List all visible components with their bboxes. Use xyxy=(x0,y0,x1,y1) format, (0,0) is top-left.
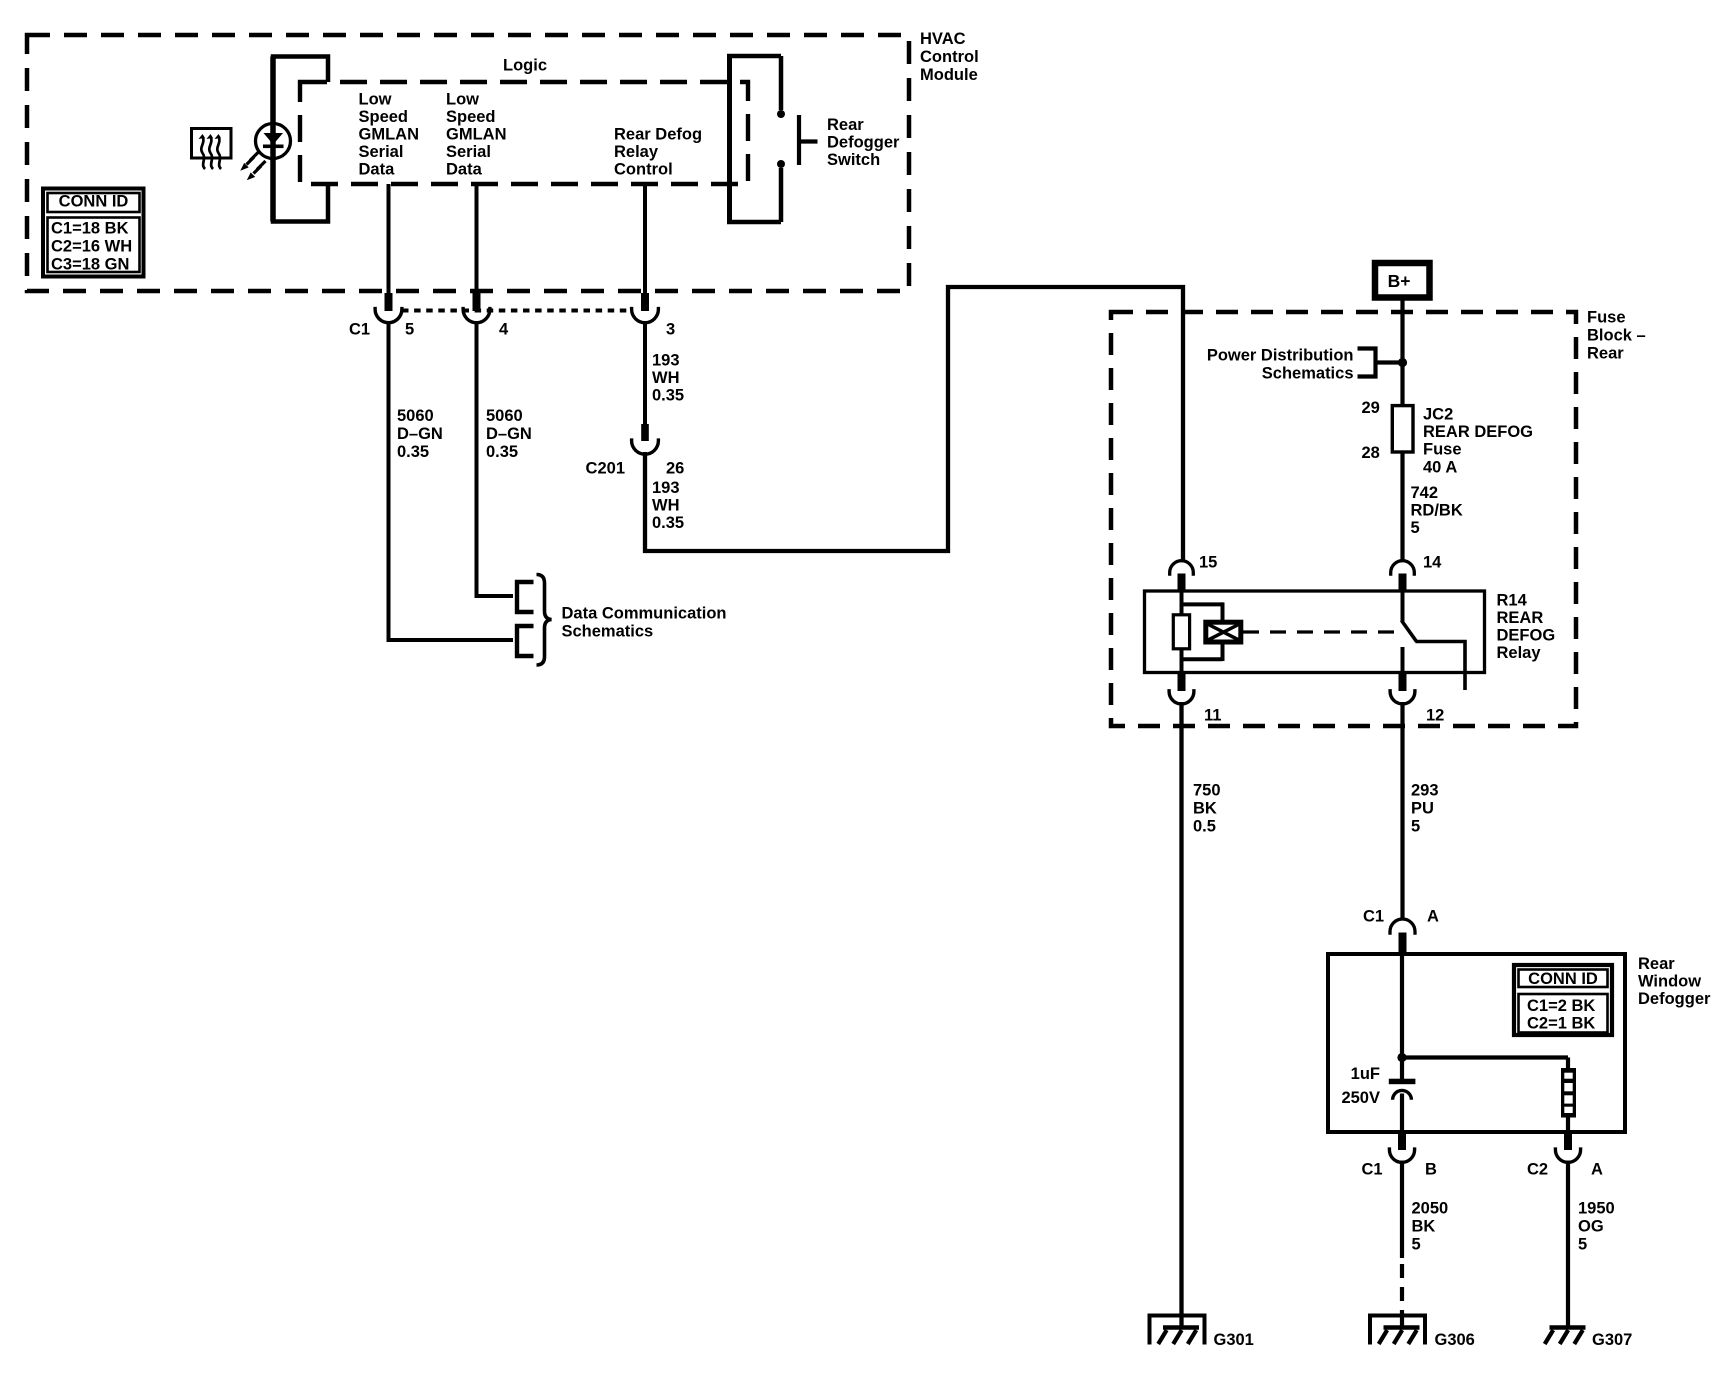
Data Communication Schematics label xyxy=(562,605,727,641)
svg-text:5060: 5060 xyxy=(397,407,434,425)
svg-text:REAR DEFOG: REAR DEFOG xyxy=(1423,423,1533,441)
pin 11 terminal xyxy=(1169,674,1194,704)
svg-text:5: 5 xyxy=(1412,1236,1421,1254)
wire 193 WH to fuse block pin 15 xyxy=(645,287,1183,560)
svg-text:750: 750 xyxy=(1193,782,1221,800)
svg-text:CONN ID: CONN ID xyxy=(59,193,129,211)
capacitor label 1uF 250V xyxy=(1341,1065,1380,1107)
svg-text:14: 14 xyxy=(1423,554,1442,572)
svg-text:RD/BK: RD/BK xyxy=(1411,502,1463,520)
fuse JC2 label xyxy=(1423,406,1533,477)
svg-text:WH: WH xyxy=(652,369,680,387)
svg-text:CONN ID: CONN ID xyxy=(1528,970,1598,988)
CONN ID table (HVAC module) xyxy=(43,189,144,277)
wire junction to grid element xyxy=(1402,1058,1568,1070)
ground G307 xyxy=(1545,1328,1586,1345)
svg-text:Schematics: Schematics xyxy=(562,623,654,641)
junction dot defogger node xyxy=(1397,1053,1406,1062)
svg-text:5: 5 xyxy=(1411,519,1420,537)
Rear Window Defogger box xyxy=(1328,954,1625,1132)
wire B+ to fuse xyxy=(1400,301,1404,407)
svg-text:15: 15 xyxy=(1199,554,1217,572)
Rear Window Defogger label xyxy=(1638,955,1711,1008)
svg-text:5: 5 xyxy=(405,321,414,339)
svg-text:193: 193 xyxy=(652,479,680,497)
relay pin 12 stub xyxy=(1401,647,1405,673)
relay coil resistor xyxy=(1173,615,1189,649)
svg-text:BK: BK xyxy=(1193,800,1217,818)
Low Speed GMLAN Serial Data (pin 4) xyxy=(446,91,507,179)
Fuse Block - Rear box xyxy=(1111,312,1576,726)
svg-text:BK: BK xyxy=(1412,1218,1436,1236)
wire 193 WH pin3 to C201 xyxy=(643,322,647,424)
svg-text:4: 4 xyxy=(499,321,509,339)
svg-text:D–GN: D–GN xyxy=(486,425,532,443)
svg-text:Relay: Relay xyxy=(1497,644,1542,662)
svg-text:Power Distribution: Power Distribution xyxy=(1207,347,1354,365)
svg-text:C3=18 GN: C3=18 GN xyxy=(51,256,129,274)
svg-text:5060: 5060 xyxy=(486,407,523,425)
wire 5060 D-GN from pin 4 xyxy=(477,322,514,596)
svg-text:0.35: 0.35 xyxy=(652,514,684,532)
svg-text:Defogger: Defogger xyxy=(1638,990,1711,1008)
capacitor 1uF 250V xyxy=(1389,1079,1416,1100)
Rear Defogger Switch symbol xyxy=(727,56,818,222)
wire capacitor to C1 pin B xyxy=(1400,1094,1404,1133)
svg-text:Low: Low xyxy=(446,91,479,109)
relay R14 label xyxy=(1497,592,1556,663)
Rear Defogger Switch label xyxy=(827,116,900,169)
wire 750 BK to G301 xyxy=(1179,702,1183,1328)
connector C1 pin B terminal xyxy=(1389,1133,1414,1162)
HVAC Control Module label xyxy=(920,30,979,84)
svg-text:Defogger: Defogger xyxy=(827,134,900,152)
svg-text:0.35: 0.35 xyxy=(397,443,429,461)
relay switch contact from pin 14 xyxy=(1401,591,1405,622)
svg-text:R14: R14 xyxy=(1497,592,1528,610)
svg-text:JC2: JC2 xyxy=(1423,406,1453,424)
svg-text:5: 5 xyxy=(1411,818,1420,836)
svg-text:250V: 250V xyxy=(1341,1089,1380,1107)
svg-text:DEFOG: DEFOG xyxy=(1497,627,1556,645)
svg-text:1uF: 1uF xyxy=(1351,1065,1380,1083)
svg-text:Serial: Serial xyxy=(359,143,404,161)
Fuse Block - Rear label xyxy=(1587,309,1646,363)
svg-text:B: B xyxy=(1425,1161,1437,1179)
svg-text:A: A xyxy=(1591,1161,1603,1179)
data link terminal lower xyxy=(517,626,534,656)
svg-text:G307: G307 xyxy=(1592,1331,1632,1349)
Power Distribution Schematics label xyxy=(1207,347,1354,383)
svg-text:GMLAN: GMLAN xyxy=(359,126,420,144)
svg-text:PU: PU xyxy=(1411,800,1434,818)
svg-text:Logic: Logic xyxy=(503,57,547,75)
svg-text:26: 26 xyxy=(666,460,684,478)
label 5060 D-GN 0.35 (pin4) xyxy=(486,407,532,461)
connector C1 dotted gang line xyxy=(402,309,632,313)
data link terminal upper xyxy=(517,582,534,612)
svg-text:Rear: Rear xyxy=(1587,345,1624,363)
label 2050 BK 5 xyxy=(1412,1200,1449,1254)
pin 4 terminal xyxy=(463,293,490,323)
svg-text:11: 11 xyxy=(1204,707,1221,725)
relay switch fixed contact arm xyxy=(1416,642,1466,691)
relay coil (crossed box) xyxy=(1206,622,1241,642)
svg-text:Serial: Serial xyxy=(446,143,491,161)
svg-text:C1=18 BK: C1=18 BK xyxy=(51,220,129,238)
svg-text:Data: Data xyxy=(359,161,396,179)
Rear Defog Relay Control (pin 3) xyxy=(614,126,702,179)
svg-text:3: 3 xyxy=(666,321,675,339)
svg-text:Low: Low xyxy=(359,91,392,109)
svg-text:Schematics: Schematics xyxy=(1262,365,1354,383)
svg-text:REAR: REAR xyxy=(1497,609,1544,627)
Low Speed GMLAN Serial Data (pin 5) xyxy=(359,91,420,179)
label 193 WH 0.35 (upper) xyxy=(652,352,684,405)
svg-text:G306: G306 xyxy=(1435,1331,1475,1349)
svg-text:B+: B+ xyxy=(1388,271,1411,291)
relay coil branch wires xyxy=(1180,591,1223,673)
svg-text:5: 5 xyxy=(1578,1236,1587,1254)
wire pin4 inside module xyxy=(475,184,479,293)
svg-text:Data Communication: Data Communication xyxy=(562,605,727,623)
ground G306 xyxy=(1368,1316,1427,1345)
wire 742 RD/BK fuse to relay xyxy=(1400,452,1404,561)
wire inside defogger from pin A xyxy=(1400,954,1404,1079)
label 193 WH 0.35 (lower) xyxy=(652,479,684,532)
label 5060 D-GN 0.35 (pin5) xyxy=(397,407,443,461)
svg-text:193: 193 xyxy=(652,352,680,370)
label 293 PU 5 xyxy=(1411,782,1439,836)
svg-text:12: 12 xyxy=(1426,707,1444,725)
svg-text:Rear: Rear xyxy=(1638,955,1675,973)
svg-text:Rear Defog: Rear Defog xyxy=(614,126,702,144)
svg-text:OG: OG xyxy=(1578,1218,1604,1236)
label 750 BK 0.5 xyxy=(1193,782,1221,836)
label 1950 OG 5 xyxy=(1578,1200,1615,1254)
LED light arrows xyxy=(240,152,265,180)
svg-text:2050: 2050 xyxy=(1412,1200,1449,1218)
svg-text:GMLAN: GMLAN xyxy=(446,126,507,144)
svg-text:A: A xyxy=(1427,908,1439,926)
pin 15 terminal xyxy=(1170,561,1194,591)
brace xyxy=(537,575,552,666)
svg-text:Fuse: Fuse xyxy=(1423,441,1462,459)
connector C201 xyxy=(632,424,659,454)
Power Distribution link bracket xyxy=(1358,349,1400,377)
svg-text:Window: Window xyxy=(1638,973,1701,991)
svg-text:1950: 1950 xyxy=(1578,1200,1615,1218)
heater indicator icon xyxy=(192,129,232,170)
svg-text:Control: Control xyxy=(920,48,979,66)
svg-text:Speed: Speed xyxy=(446,108,496,126)
svg-text:Data: Data xyxy=(446,161,483,179)
svg-text:Control: Control xyxy=(614,161,673,179)
svg-text:293: 293 xyxy=(1411,782,1439,800)
ground G301 xyxy=(1148,1316,1207,1345)
svg-text:C1: C1 xyxy=(349,321,370,339)
connector C1 pin A terminal xyxy=(1390,919,1415,954)
svg-text:40 A: 40 A xyxy=(1423,458,1457,476)
fuse JC2 REAR DEFOG 40 A xyxy=(1392,406,1413,452)
CONN ID table (defogger) xyxy=(1514,965,1612,1035)
relay switch blade xyxy=(1402,621,1417,642)
svg-text:0.35: 0.35 xyxy=(486,443,518,461)
svg-text:HVAC: HVAC xyxy=(920,30,966,48)
svg-text:29: 29 xyxy=(1362,399,1380,417)
wire 5060 D-GN from pin 5 xyxy=(389,322,514,640)
label 742 RD/BK 5 xyxy=(1411,484,1463,537)
wire: LED indicator loop xyxy=(273,57,328,222)
svg-text:C1: C1 xyxy=(1362,1161,1383,1179)
wire 293 PU relay to defogger xyxy=(1400,702,1404,919)
svg-text:0.5: 0.5 xyxy=(1193,818,1216,836)
wire element to C2 pin A xyxy=(1566,1118,1570,1133)
Logic box xyxy=(300,82,748,184)
svg-text:Switch: Switch xyxy=(827,151,880,169)
svg-text:0.35: 0.35 xyxy=(652,387,684,405)
svg-text:C2: C2 xyxy=(1527,1161,1548,1179)
pin 3 terminal xyxy=(632,293,659,323)
LED indicator (rear defog telltale) xyxy=(256,124,291,159)
svg-text:Block –: Block – xyxy=(1587,327,1646,345)
svg-text:C1: C1 xyxy=(1363,908,1384,926)
svg-text:742: 742 xyxy=(1411,484,1439,502)
defogger grid element xyxy=(1561,1068,1576,1118)
svg-text:G301: G301 xyxy=(1214,1331,1254,1349)
pin 5 terminal xyxy=(375,293,402,323)
HVAC Control Module box xyxy=(27,35,909,291)
wire pin3 inside module xyxy=(643,184,647,293)
svg-text:Relay: Relay xyxy=(614,143,659,161)
relay linkage dashed line xyxy=(1243,630,1396,633)
svg-text:C2=1 BK: C2=1 BK xyxy=(1527,1015,1595,1033)
svg-text:C1=2 BK: C1=2 BK xyxy=(1527,997,1595,1015)
svg-text:WH: WH xyxy=(652,497,680,515)
svg-text:C2=16 WH: C2=16 WH xyxy=(51,238,132,256)
wire 1950 OG to G307 xyxy=(1566,1161,1570,1328)
svg-text:Rear: Rear xyxy=(827,116,864,134)
junction dot B+ node xyxy=(1398,358,1407,367)
pin 12 terminal xyxy=(1390,674,1415,704)
connector C2 pin A terminal xyxy=(1555,1133,1580,1162)
svg-text:28: 28 xyxy=(1362,444,1380,462)
svg-text:C201: C201 xyxy=(586,460,625,478)
svg-text:Fuse: Fuse xyxy=(1587,309,1626,327)
B+ power symbol xyxy=(1375,263,1430,298)
relay R14 box xyxy=(1145,591,1485,673)
wire pin5 inside module xyxy=(387,184,391,293)
wire 2050 BK to G306 xyxy=(1400,1161,1404,1328)
svg-text:D–GN: D–GN xyxy=(397,425,443,443)
svg-text:Module: Module xyxy=(920,66,978,84)
pin 14 terminal xyxy=(1391,561,1415,591)
svg-text:Speed: Speed xyxy=(359,108,409,126)
